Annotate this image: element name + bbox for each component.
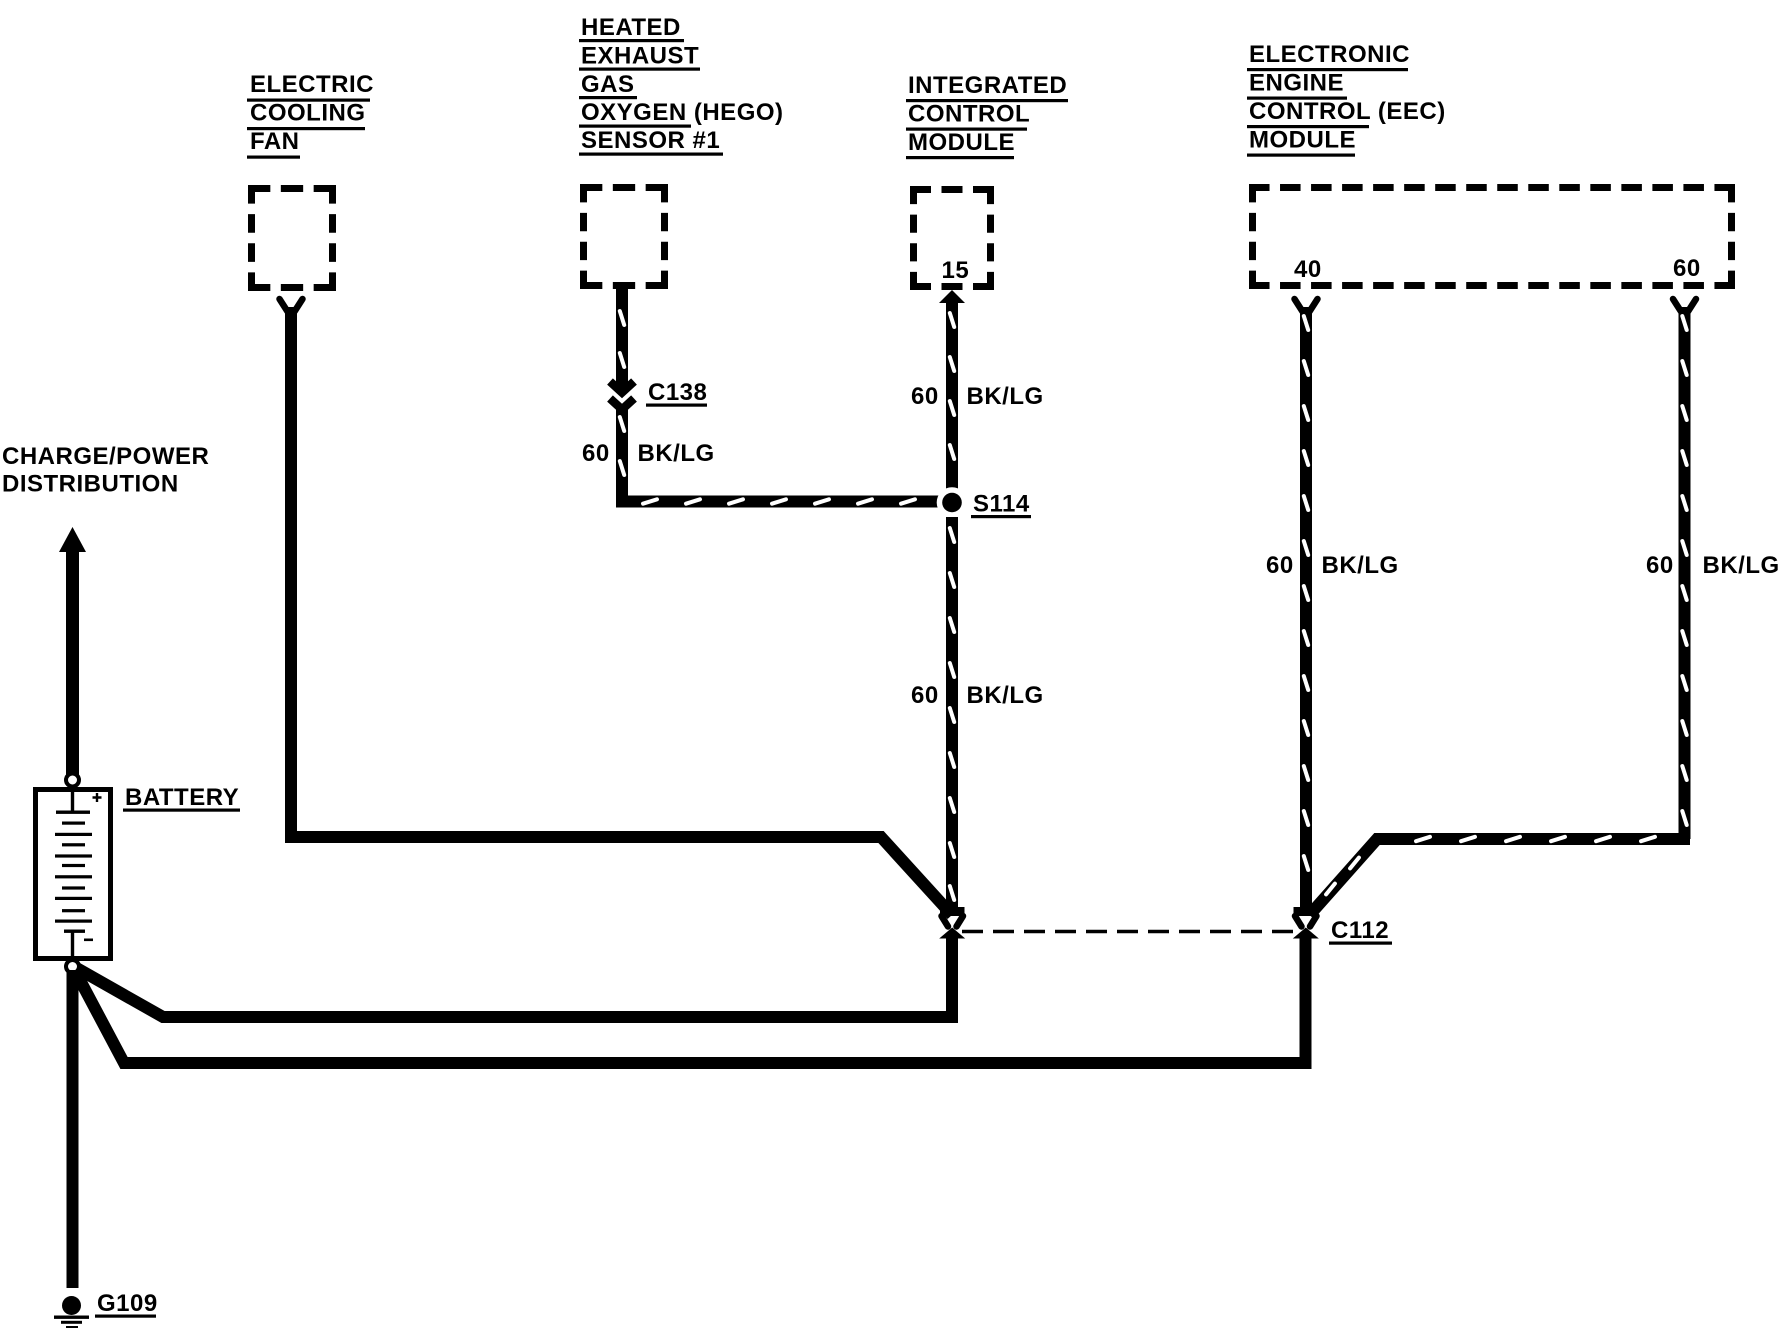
svg-text:ELECTRIC: ELECTRIC: [250, 71, 374, 98]
svg-text:BATTERY: BATTERY: [125, 784, 239, 811]
svg-text:MODULE: MODULE: [908, 129, 1015, 156]
svg-text:BK/LG: BK/LG: [1322, 552, 1399, 579]
svg-text:G109: G109: [97, 1290, 158, 1317]
label: 60 BK/LG (HEGO wire): [582, 440, 715, 467]
svg-text:60: 60: [911, 383, 939, 410]
svg-text:OXYGEN (HEGO): OXYGEN (HEGO): [581, 99, 784, 126]
svg-text:ENGINE: ENGINE: [1249, 70, 1344, 97]
svg-text:60: 60: [582, 440, 610, 467]
ground G109: [54, 1296, 89, 1328]
wire: 60 BK/LG from C138 to splice S114: [620, 404, 941, 504]
svg-text:COOLING: COOLING: [250, 100, 366, 127]
svg-text:CHARGE/POWER: CHARGE/POWER: [2, 443, 209, 470]
connector C112 female half (right): [1294, 907, 1319, 927]
svg-text:C138: C138: [648, 379, 707, 406]
pin 40 of EEC module: [1294, 256, 1322, 283]
wire: battery negative to C112 left half: [73, 935, 952, 1017]
svg-text:BK/LG: BK/LG: [638, 440, 715, 467]
component box: electric cooling fan: [248, 185, 336, 291]
wire: 60 BK/LG from EEC pin 40 down to C112 (right half): [1295, 299, 1318, 912]
svg-text:CONTROL (EEC): CONTROL (EEC): [1249, 98, 1446, 125]
node: battery positive terminal: [66, 774, 79, 787]
svg-text:SENSOR #1: SENSOR #1: [581, 127, 720, 154]
svg-text:60: 60: [911, 682, 939, 709]
svg-text:60: 60: [1646, 552, 1674, 579]
label: HEATED EXHAUST GAS OXYGEN (HEGO) SENSOR #1: [579, 14, 784, 156]
svg-text:BK/LG: BK/LG: [1703, 552, 1780, 579]
wire: electric cooling fan to C112 (left half): [280, 299, 953, 915]
label: C138: [646, 379, 707, 407]
dashed tie line of connector C112: [962, 930, 1293, 934]
svg-text:C112: C112: [1331, 917, 1389, 944]
label: 60 BK/LG (ICM wire, lower): [911, 682, 1044, 709]
svg-text:ELECTRONIC: ELECTRONIC: [1249, 41, 1410, 68]
battery: [36, 789, 111, 959]
svg-text:BK/LG: BK/LG: [967, 383, 1044, 410]
svg-text:40: 40: [1294, 256, 1322, 283]
label: C112: [1329, 917, 1392, 945]
label: 60 BK/LG (EEC pin 40 wire): [1266, 552, 1399, 579]
wire: 60 BK/LG from EEC pin 60 down/left to C112 (right half): [1310, 299, 1697, 915]
svg-text:15: 15: [942, 257, 970, 284]
svg-text:HEATED: HEATED: [581, 14, 681, 41]
svg-text:FAN: FAN: [250, 128, 300, 155]
label: ELECTRIC COOLING FAN: [247, 71, 374, 159]
connector C112 male half (right, arrow up from battery wire): [1293, 928, 1319, 939]
svg-text:60: 60: [1673, 255, 1701, 282]
label: CHARGE/POWER DISTRIBUTION: [2, 443, 209, 498]
label: G109: [95, 1290, 158, 1318]
wire: battery negative to C112 right half: [73, 935, 1306, 1063]
label: 60 BK/LG (EEC pin 60 wire): [1646, 552, 1780, 579]
wire: HEGO sensor #1 to connector C138: [620, 288, 624, 388]
wire: 60 BK/LG from S114 down to C112 (left half): [950, 517, 954, 912]
wire: battery positive to charge/power distribution (arrow up): [59, 527, 86, 775]
label: INTEGRATED CONTROL MODULE: [906, 72, 1068, 159]
label: BATTERY: [123, 784, 240, 812]
splice S114: [937, 487, 968, 518]
svg-text:DISTRIBUTION: DISTRIBUTION: [2, 471, 179, 498]
pin 15 of integrated control module: [942, 257, 970, 284]
svg-text:S114: S114: [973, 491, 1030, 518]
wire: 60 BK/LG from ICM pin 15 down to S114: [939, 290, 965, 503]
node: battery negative terminal (junction): [66, 960, 79, 973]
component box: integrated control module: [910, 186, 994, 290]
svg-text:CONTROL: CONTROL: [908, 101, 1030, 128]
label: 60 BK/LG (ICM wire, upper): [911, 383, 1044, 410]
svg-text:60: 60: [1266, 552, 1294, 579]
svg-text:EXHAUST: EXHAUST: [581, 43, 699, 70]
label: S114: [971, 491, 1031, 519]
svg-text:INTEGRATED: INTEGRATED: [908, 72, 1067, 99]
label: ELECTRONIC ENGINE CONTROL (EEC) MODULE: [1247, 41, 1446, 157]
pin 60 of EEC module: [1673, 255, 1701, 282]
connector C138 (in-line): [610, 382, 634, 410]
connector C112 male half (left, arrow up from battery wire): [939, 928, 965, 939]
svg-text:MODULE: MODULE: [1249, 127, 1356, 154]
connector C112 female half (left): [940, 907, 965, 927]
component box: EEC module: [1249, 184, 1735, 289]
wire: battery negative down to ground G109: [67, 970, 79, 1288]
component box: HEGO sensor #1: [580, 184, 668, 289]
svg-text:BK/LG: BK/LG: [967, 682, 1044, 709]
svg-text:GAS: GAS: [581, 71, 635, 98]
